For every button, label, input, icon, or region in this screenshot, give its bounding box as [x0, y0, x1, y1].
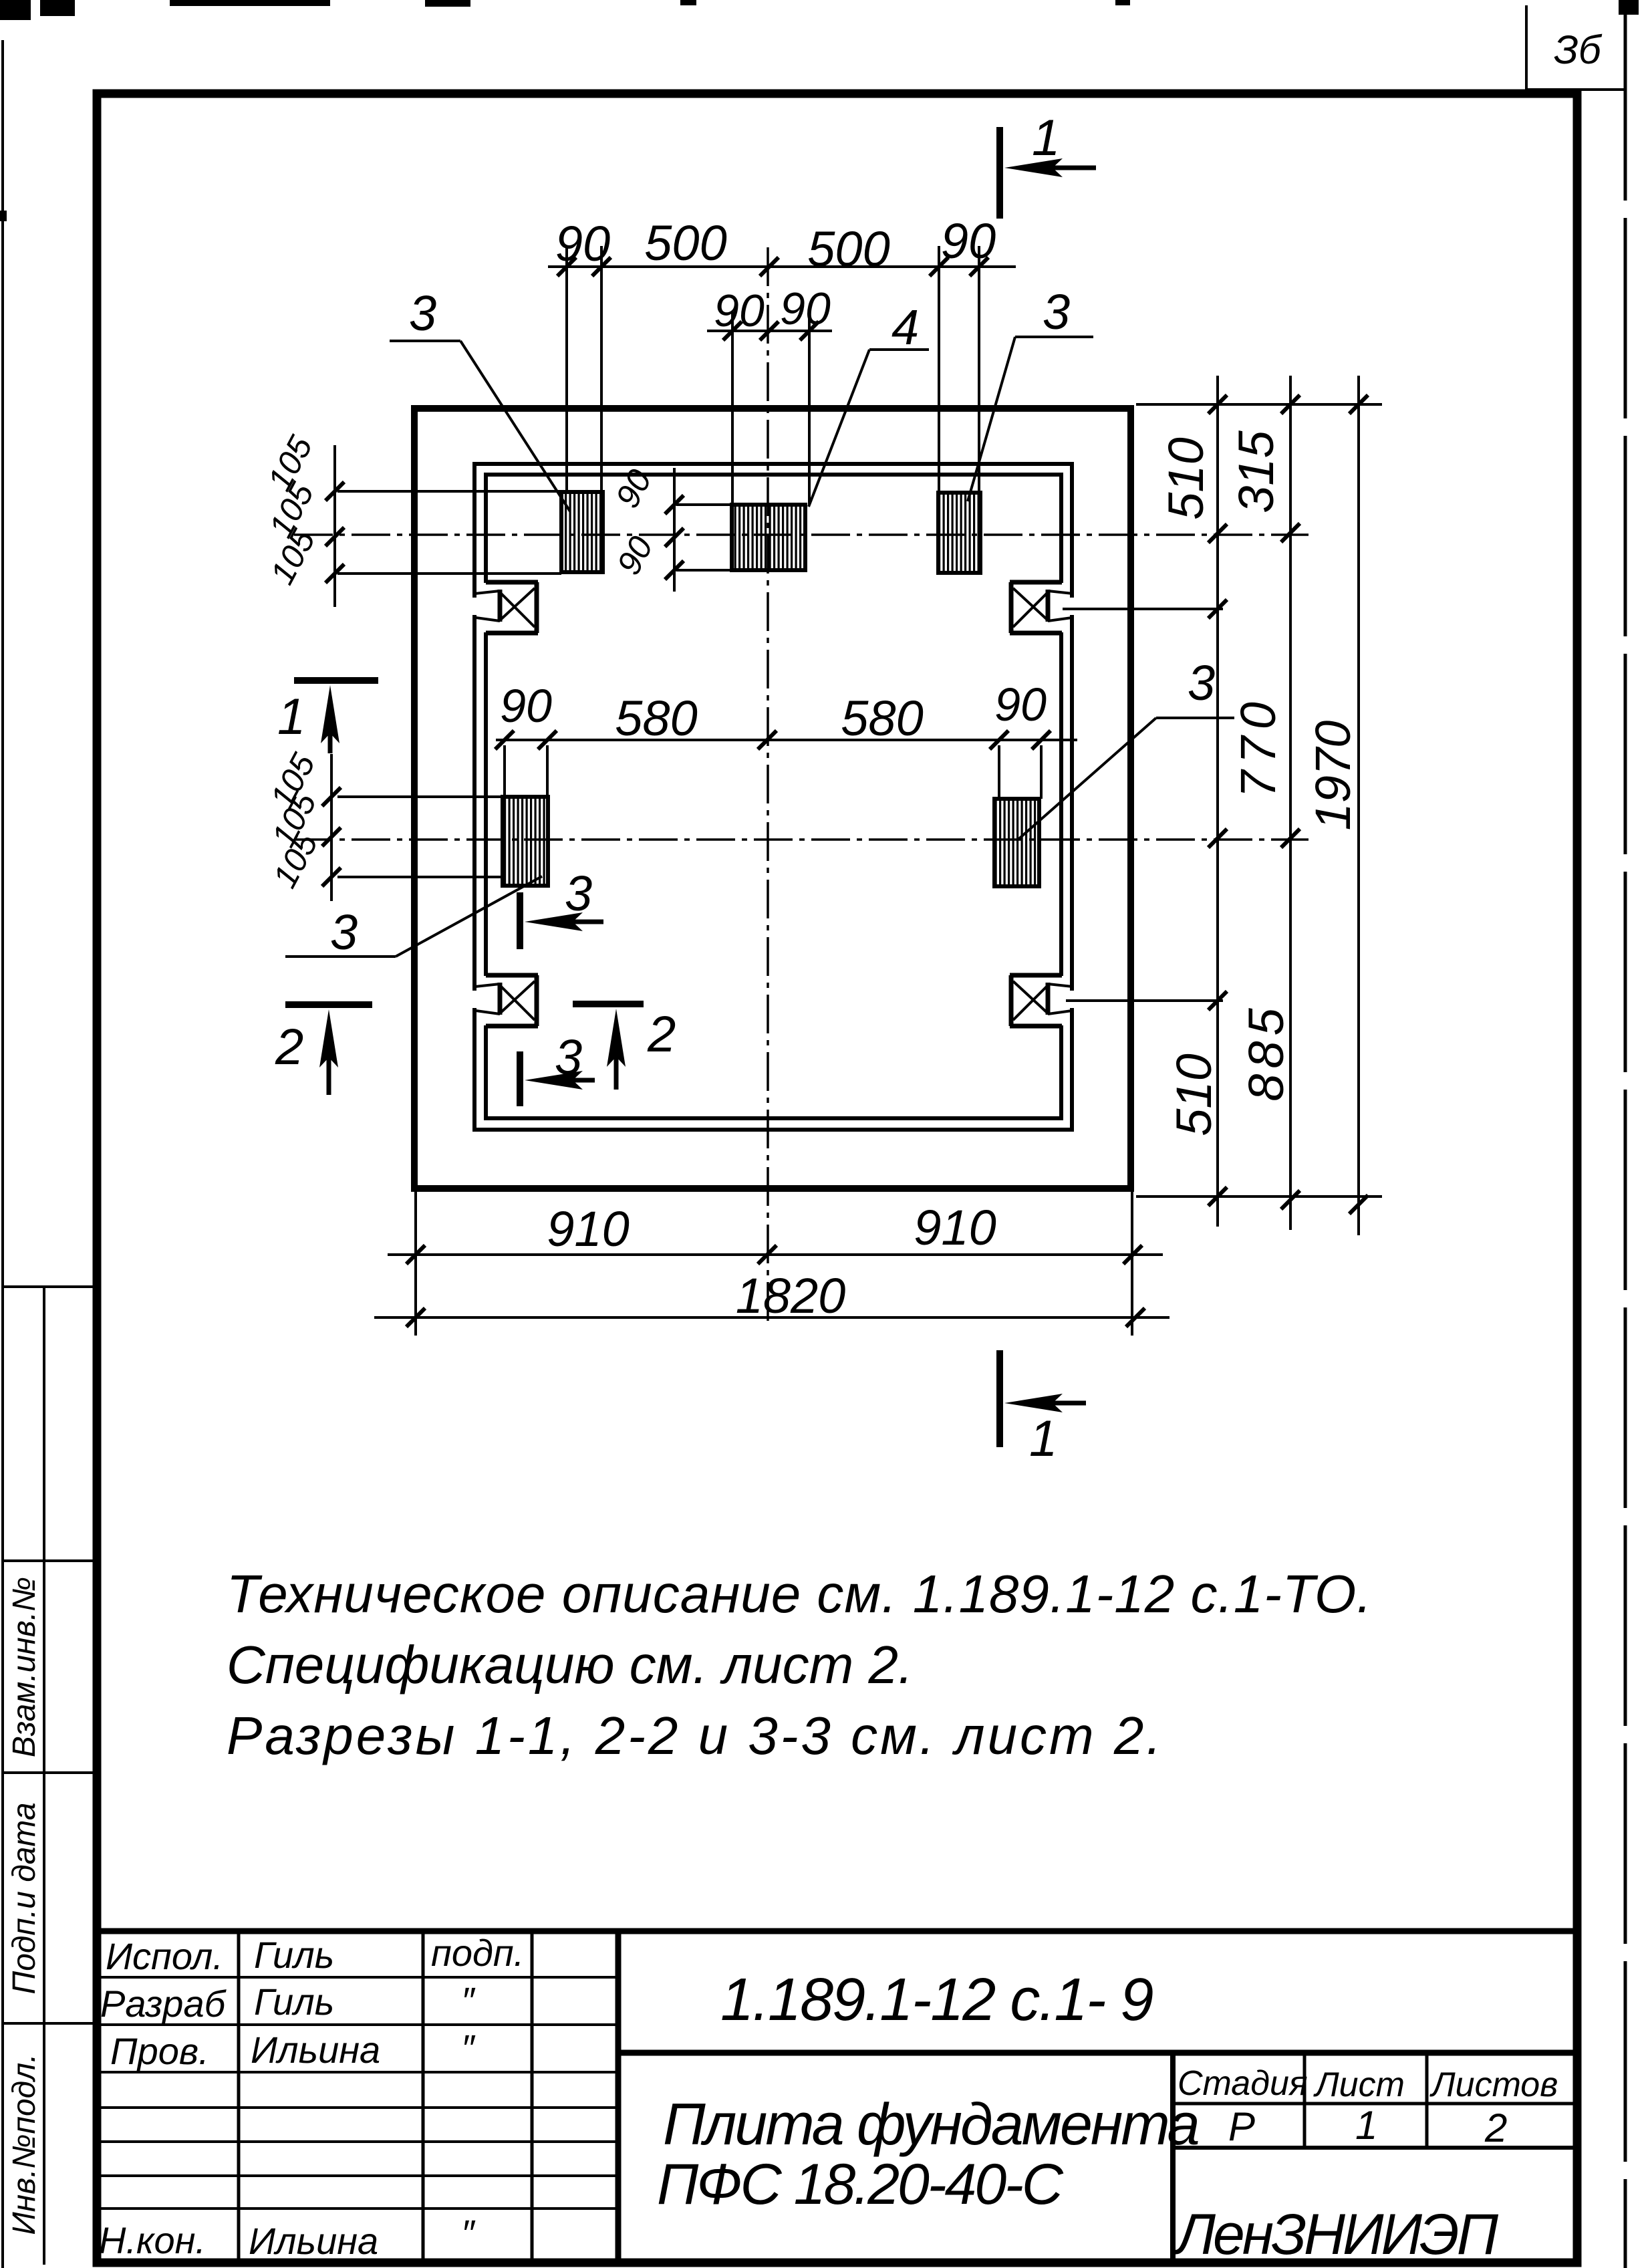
centerline vertical — [767, 247, 769, 1327]
extension line R5 left edge — [998, 745, 1000, 799]
svg-text:Лист: Лист — [1313, 2065, 1405, 2104]
extension line R1 bottom — [337, 572, 561, 575]
svg-text:″: ″ — [461, 1979, 476, 2021]
svg-text:1: 1 — [277, 688, 305, 745]
dimension line 90/580/580/90 middle — [496, 739, 1077, 741]
svg-text:Разраб: Разраб — [100, 1983, 227, 2025]
extension line R4 left edge — [503, 745, 506, 797]
svg-text:500: 500 — [644, 215, 726, 271]
svg-text:510: 510 — [1158, 437, 1214, 519]
section marker 1 top — [1000, 110, 1096, 219]
notch bottom-left — [470, 975, 540, 1026]
svg-text:2: 2 — [647, 1006, 676, 1063]
svg-text:Ильина: Ильина — [249, 2220, 378, 2262]
svg-text:3: 3 — [1188, 655, 1215, 711]
svg-text:90: 90 — [500, 680, 552, 732]
extension line plate left edge — [414, 1192, 417, 1336]
svg-text:90: 90 — [780, 283, 831, 334]
dimension line 105 chain upper left — [333, 445, 336, 607]
section marker 1 bottom — [1000, 1350, 1086, 1467]
anchor insert R2 (hatched) — [732, 505, 805, 570]
dimension line 1970 right outer — [1357, 376, 1360, 1235]
section marker 1 left — [277, 680, 378, 753]
extension line plate right edge — [1131, 1192, 1133, 1336]
svg-text:910: 910 — [547, 1201, 629, 1257]
svg-text:Испол.: Испол. — [106, 1935, 223, 1977]
svg-text:″: ″ — [461, 2027, 476, 2069]
extension line R3 left edge — [938, 246, 940, 493]
svg-text:Техническое описание см. 1.1: Техническое описание см. 1.189.1-12 с.1-… — [227, 1564, 1372, 1624]
dimension line 105 chain lower left — [330, 754, 333, 901]
svg-text:90: 90 — [714, 285, 765, 336]
anchor insert R1 (hatched) — [561, 492, 603, 572]
dimension ticks — [322, 257, 1368, 1327]
notch bottom-right — [1008, 975, 1077, 1026]
svg-text:4: 4 — [891, 299, 919, 355]
svg-text:1: 1 — [1029, 1410, 1057, 1467]
svg-text:Н.кон.: Н.кон. — [99, 2219, 206, 2261]
svg-text:1820: 1820 — [736, 1268, 846, 1324]
svg-text:1970: 1970 — [1305, 721, 1361, 831]
title block texts — [99, 1932, 524, 2262]
svg-text:ПФС 18.20-40-С: ПФС 18.20-40-С — [657, 2152, 1064, 2217]
extension line R2 top — [676, 503, 732, 506]
svg-text:910: 910 — [914, 1200, 996, 1255]
dimension line 90/90 chain at R2 — [673, 468, 676, 592]
svg-text:3: 3 — [565, 866, 592, 921]
left margin strip dividers — [3, 1287, 97, 2265]
svg-text:Ильина: Ильина — [251, 2029, 380, 2071]
extension line R1 left edge — [565, 246, 568, 492]
svg-text:3: 3 — [330, 904, 358, 960]
leader 3 top-right — [968, 284, 1093, 501]
dimension line 1820 bottom — [374, 1316, 1170, 1319]
extension line plate top edge right — [1136, 403, 1382, 406]
svg-text:″: ″ — [461, 2212, 476, 2254]
left trim line of sheet — [1, 40, 4, 2268]
anchor insert R4 (hatched) — [503, 797, 548, 886]
extension line R4 right edge — [546, 745, 549, 797]
title block grid — [97, 1931, 1576, 2263]
svg-text:580: 580 — [841, 690, 923, 746]
svg-text:Подп.и дата: Подп.и дата — [7, 1802, 42, 1994]
svg-text:Разрезы 1-1, 2-2 и 3-3 см. лис: Разрезы 1-1, 2-2 и 3-3 см. лист 2. — [227, 1706, 1164, 1765]
section marker 2 inner — [573, 1004, 676, 1090]
leader line from bottom-right notch — [1066, 999, 1223, 1002]
section marker 3 inner lower — [520, 1029, 595, 1106]
dimension line 910/910 bottom — [388, 1253, 1163, 1256]
svg-text:Стадия: Стадия — [1178, 2064, 1308, 2103]
extension line R1 right edge — [600, 246, 603, 492]
scan artifact marks along top edge — [0, 0, 1639, 221]
svg-text:3: 3 — [1043, 284, 1070, 340]
svg-text:90: 90 — [994, 678, 1047, 731]
svg-text:ЛенЗНИИЭП: ЛенЗНИИЭП — [1173, 2202, 1499, 2267]
section marker 2 left — [275, 1005, 372, 1095]
svg-text:500: 500 — [807, 221, 889, 277]
centerline horizontal top row — [294, 533, 1309, 536]
leader 3 top-left — [390, 285, 570, 511]
anchor insert R3 (hatched) — [938, 493, 980, 573]
extension line R2 bottom — [676, 569, 732, 572]
right trim line of sheet — [1624, 0, 1627, 2268]
centerline horizontal middle row — [294, 838, 1309, 841]
anchor insert R5 (hatched) — [994, 799, 1039, 886]
dimension line 90/500/500/90 top — [548, 265, 1016, 268]
opening chamfer outer square — [474, 464, 1072, 1130]
svg-text:2: 2 — [1484, 2106, 1507, 2150]
svg-text:Пров.: Пров. — [110, 2030, 209, 2072]
dimension line 90/90 top center — [707, 330, 832, 332]
svg-text:90: 90 — [555, 216, 610, 271]
svg-text:1: 1 — [1032, 110, 1060, 166]
svg-text:3: 3 — [555, 1029, 582, 1085]
notch top-right — [1008, 582, 1077, 633]
dim values 510/315/770/1970/885/510 right (rotated) — [1158, 430, 1361, 1136]
svg-text:3: 3 — [409, 285, 436, 341]
svg-text:Спецификацию см. лист 2.: Спецификацию см. лист 2. — [227, 1635, 913, 1694]
extension line plate bottom edge right — [1136, 1195, 1382, 1198]
extension line R2 right edge — [808, 311, 811, 505]
svg-text:подп.: подп. — [431, 1932, 524, 1974]
svg-text:Гиль: Гиль — [254, 1934, 334, 1976]
notch top-left — [470, 582, 540, 633]
svg-text:1: 1 — [1355, 2103, 1377, 2148]
svg-text:2: 2 — [275, 1019, 303, 1076]
leader 3 bottom-left — [285, 876, 542, 960]
extension line R1 top — [337, 490, 561, 493]
leader 4 top-center — [809, 299, 929, 507]
section marker 3 inner upper — [520, 866, 603, 949]
svg-text:885: 885 — [1238, 1003, 1294, 1101]
extension line R2 left edge — [731, 311, 734, 505]
svg-text:Зб: Зб — [1554, 27, 1603, 72]
extension line R4 top — [337, 795, 503, 798]
leader line from top-right notch — [1063, 608, 1223, 610]
svg-text:Р: Р — [1228, 2104, 1255, 2149]
svg-text:510: 510 — [1166, 1053, 1222, 1136]
extension line R4 bottom — [337, 876, 503, 878]
svg-text:770: 770 — [1230, 695, 1286, 797]
svg-text:315: 315 — [1228, 430, 1284, 513]
extension line R5 right edge — [1040, 745, 1043, 799]
svg-text:Гиль: Гиль — [254, 1981, 334, 2023]
svg-text:Листов: Листов — [1429, 2065, 1558, 2104]
svg-text:90: 90 — [941, 213, 996, 269]
extension line R3 right edge — [978, 246, 980, 493]
svg-text:1.189.1-12 с.1- 9: 1.189.1-12 с.1- 9 — [720, 1967, 1153, 2033]
svg-text:580: 580 — [615, 690, 697, 746]
top-right inventory box — [1525, 5, 1528, 90]
svg-text:Взам.инв.№: Взам.инв.№ — [7, 1577, 42, 1757]
plate outer outline — [414, 408, 1131, 1188]
svg-text:Плита фундамента: Плита фундамента — [663, 2091, 1198, 2157]
dimension line 315/770/885 right middle — [1289, 376, 1292, 1230]
dim values 105 chains and 90/90 at R2 (rotated) — [261, 430, 660, 894]
svg-text:Инв.№подл.: Инв.№подл. — [7, 2053, 42, 2235]
opening inner square — [486, 475, 1061, 1118]
dimension line 510/510 right inner — [1216, 376, 1219, 1227]
leader 3 mid-right — [1016, 655, 1234, 841]
